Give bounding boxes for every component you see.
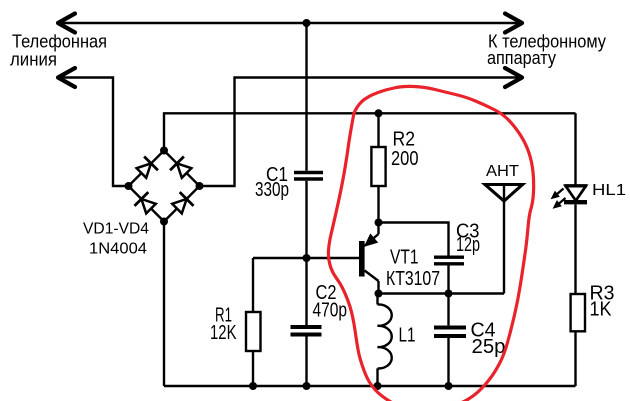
wire: R3 to ground rail bbox=[574, 331, 576, 386]
wire: ground rail bbox=[164, 385, 576, 387]
wire: collector line to antenna bbox=[379, 292, 505, 294]
arrow: to telephone apparatus (lower right) bbox=[505, 68, 522, 87]
LED HL1 triangle bbox=[566, 186, 587, 201]
svg-text:12p: 12p bbox=[456, 234, 480, 256]
capacitor C1 plates bbox=[294, 171, 323, 174]
wire: C4 to ground rail bbox=[447, 338, 449, 386]
wire: HL1 to R3 bbox=[574, 205, 576, 295]
svg-text:1N4004: 1N4004 bbox=[89, 241, 147, 258]
node: bridge top (+) bbox=[160, 147, 168, 155]
capacitor C3 plates bbox=[434, 256, 464, 259]
resistor R1 leads bbox=[252, 258, 254, 312]
svg-text:200: 200 bbox=[391, 148, 419, 170]
svg-text:25p: 25p bbox=[472, 336, 506, 358]
node: bridge right (AC) bbox=[196, 182, 204, 190]
svg-text:аппарату: аппарату bbox=[487, 48, 556, 68]
svg-text:12K: 12K bbox=[210, 322, 237, 344]
svg-text:VT1: VT1 bbox=[390, 247, 419, 269]
capacitor C4 plates bbox=[434, 326, 466, 330]
svg-text:L1: L1 bbox=[399, 325, 416, 347]
wire: C1 to base junction to C2 bbox=[305, 181, 307, 325]
resistor R2 leads bbox=[377, 113, 379, 147]
node: top line / C1 junction bbox=[303, 19, 311, 27]
transistor VT1 emitter (PNP arrow into base bar) bbox=[377, 223, 379, 235]
diode bridge VD1-VD4 frame bbox=[129, 151, 200, 222]
LED HL1 light arrows bbox=[552, 189, 566, 209]
node: emitter junction bbox=[375, 219, 383, 227]
transistor VT1 collector bbox=[365, 271, 379, 282]
diode VD2 (upper right) bbox=[177, 163, 191, 177]
diode VD3 (lower left) bbox=[141, 199, 155, 213]
svg-text:470p: 470p bbox=[313, 300, 348, 322]
wire: positive rail down to HL1 bbox=[574, 113, 576, 186]
wire: C2 to ground rail bbox=[305, 337, 307, 387]
LED HL1 cathode bar bbox=[564, 200, 587, 204]
diode VD4 (lower right) bbox=[172, 199, 186, 213]
capacitor C2 plates bbox=[291, 325, 322, 329]
diode VD1 (upper left) bbox=[137, 163, 151, 177]
resistor R2 body bbox=[371, 147, 385, 186]
svg-text:линия: линия bbox=[10, 50, 57, 70]
red marker loop around oscillator section bbox=[328, 86, 533, 401]
wire: top telephone line bbox=[58, 22, 522, 24]
node: bridge left (AC) bbox=[125, 182, 133, 190]
svg-text:АНТ: АНТ bbox=[486, 163, 519, 180]
wire: phone-side lead from bridge right node bbox=[202, 78, 522, 187]
node: R2 tap on positive rail bbox=[375, 109, 383, 117]
antenna АНТ stem bbox=[503, 185, 505, 294]
node: C2/ground bbox=[303, 382, 311, 390]
node: C1/C2/R1/base junction bbox=[303, 254, 311, 262]
wire: collector line to C4 bbox=[447, 294, 449, 326]
svg-text:330p: 330p bbox=[255, 179, 289, 201]
svg-text:1K: 1K bbox=[590, 299, 613, 321]
svg-text:КТ3107: КТ3107 bbox=[386, 268, 440, 290]
wire: bridge top to positive rail bbox=[164, 113, 576, 150]
svg-text:HL1: HL1 bbox=[592, 182, 626, 199]
antenna АНТ triangle bbox=[485, 185, 523, 202]
svg-text:Телефонная: Телефонная bbox=[12, 32, 107, 52]
node: collector/L1 junction bbox=[375, 290, 383, 298]
arrow: telephone line (lower left) bbox=[58, 68, 75, 87]
node: C3/C4 junction bbox=[445, 290, 453, 298]
inductor L1 bbox=[376, 294, 378, 305]
svg-text:VD1-VD4: VD1-VD4 bbox=[83, 221, 149, 238]
transistor VT1 base bar bbox=[359, 241, 365, 277]
wire: C3 to collector line bbox=[447, 266, 449, 294]
node: L1/ground bbox=[374, 382, 382, 390]
wire: top line down to C1 bbox=[305, 23, 307, 171]
wire: emitter node to C3 bbox=[379, 223, 449, 256]
wire: line-side lead to bridge left node bbox=[58, 78, 126, 187]
node: C4/ground bbox=[445, 382, 453, 390]
wire: bridge bottom to ground rail bbox=[163, 222, 165, 387]
wire: base wire from R1/C1/C2 junction to VT1 base bbox=[253, 257, 360, 259]
arrow: telephone line (top left) bbox=[58, 14, 75, 33]
resistor R1 body bbox=[246, 312, 261, 351]
node: R1/ground bbox=[249, 382, 257, 390]
arrow: to telephone set (top right) bbox=[505, 14, 522, 33]
node: bridge bottom (-) bbox=[160, 218, 168, 226]
resistor R3 body bbox=[571, 294, 585, 331]
